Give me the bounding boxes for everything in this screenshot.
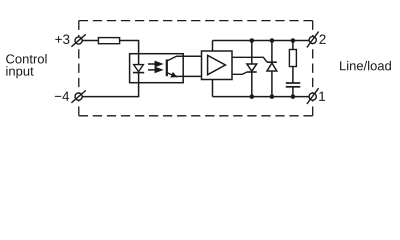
wire: LED cathode down and left to -4 terminal — [82, 73, 139, 97]
SCR2 (right, cathode up) — [267, 41, 277, 97]
wire: emitter to driver box — [176, 75, 202, 77]
top rail wire — [213, 40, 310, 42]
junction dot top SCR2 — [270, 38, 275, 43]
wire: resistor to LED anode (down into optocoupler) — [120, 41, 139, 66]
dashed enclosure (SSR body) — [79, 21, 313, 116]
bottom rail wire — [213, 96, 310, 98]
wire: +3 terminal to input resistor — [82, 40, 99, 42]
optocoupler box U1 — [130, 54, 184, 83]
LED (optocoupler input diode) — [133, 65, 144, 73]
snubber capacitor — [286, 82, 301, 84]
junction dot bottom SCR2 — [270, 94, 275, 99]
label 2 — [319, 34, 325, 43]
junction dot top SCR1 — [250, 38, 255, 43]
wire: driver box bottom to bottom rail — [212, 80, 214, 97]
terminal -4 — [71, 90, 85, 102]
phototransistor — [167, 56, 178, 77]
label input (line 2) — [6, 66, 33, 78]
gate wire of SCR2 from driver — [232, 57, 267, 62]
resistor R (input series) — [98, 38, 119, 44]
label 1 — [319, 92, 325, 101]
terminal 2 — [307, 32, 319, 48]
wire: driver box top to top rail — [212, 41, 214, 52]
label Control (line 1) — [6, 54, 46, 64]
trigger/driver box — [202, 51, 233, 80]
terminal 1 — [307, 88, 319, 104]
junction dot bottom SCR1 — [250, 94, 255, 99]
label Line/load — [340, 61, 391, 71]
junction dot bottom snubber — [291, 94, 296, 99]
wire: collector to driver box — [176, 55, 202, 57]
terminal +3 — [71, 34, 85, 46]
SCR1 (left, cathode down) — [247, 41, 257, 97]
snubber resistor — [292, 41, 294, 50]
label -4 — [55, 92, 69, 101]
gate wire of SCR1 from driver — [232, 72, 247, 74]
driver triangle — [208, 55, 226, 74]
label +3 — [55, 34, 69, 44]
light arrows — [148, 62, 162, 72]
junction dot top snubber — [291, 38, 296, 43]
